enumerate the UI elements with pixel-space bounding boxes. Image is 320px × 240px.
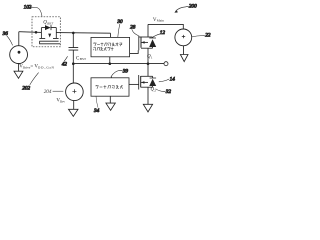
Q1 body diode	[149, 37, 156, 48]
wire: rail right segment to box 30	[56, 32, 110, 35]
Q2 top stub	[141, 75, 153, 77]
label 102	[24, 5, 42, 17]
svg-text:2: 2	[154, 89, 156, 93]
svg-text:14: 14	[170, 75, 176, 82]
label 22	[192, 33, 211, 39]
voltage source 204 circle	[66, 83, 84, 101]
wire: rail corner into gate-driver box 30	[110, 33, 112, 37]
transistor QBST: left plate	[39, 28, 45, 39]
QBST label	[43, 20, 54, 25]
Q1 channel bar	[140, 37, 142, 48]
label 34	[94, 96, 100, 114]
switch node rail	[73, 63, 164, 65]
source 36 center dot	[18, 51, 21, 54]
label 202	[22, 73, 38, 92]
svg-text:28: 28	[130, 25, 136, 31]
VMain rail	[148, 24, 183, 29]
label 42	[62, 56, 68, 67]
Q1 substrate tap with arrow	[141, 41, 148, 43]
label 12	[152, 30, 165, 38]
diode of QBST: branch	[41, 27, 56, 29]
plus sign of 22	[182, 35, 185, 38]
label 14	[159, 75, 175, 82]
label 32	[156, 89, 172, 95]
svg-text:30: 30	[117, 19, 123, 25]
Q2 designator	[151, 88, 157, 93]
label 39	[111, 69, 128, 77]
svg-text:=: =	[30, 65, 33, 70]
svg-text:Drv: Drv	[60, 99, 66, 103]
dashed box around QBST	[32, 17, 60, 47]
box 30 text line2: level shifter	[93, 47, 113, 51]
VMain label	[153, 18, 164, 23]
svg-text:12: 12	[160, 30, 166, 36]
svg-text:Main: Main	[157, 19, 164, 23]
Q1 source lead	[147, 48, 149, 63]
Q1 gate bar	[138, 36, 140, 51]
svg-text:DD_GaN: DD_GaN	[38, 66, 55, 70]
transistor QBST: right plate	[53, 28, 59, 39]
QBST gate bar	[39, 40, 58, 42]
gate driver box 34	[91, 78, 129, 96]
junction dot under box 30	[109, 62, 112, 65]
diode of QBST: triangle	[45, 25, 51, 30]
svg-text:42: 42	[62, 61, 68, 68]
output terminal	[164, 62, 168, 66]
svg-text:32: 32	[166, 89, 172, 95]
label 30	[117, 19, 123, 37]
Q2 source stub	[141, 86, 153, 88]
Q1 source stub	[141, 47, 153, 49]
svg-text:34: 34	[94, 107, 100, 114]
wire: box 34 top stub	[110, 76, 112, 78]
capacitor CBST plates	[69, 48, 79, 51]
CBST label	[76, 56, 87, 61]
svg-text:39: 39	[123, 69, 129, 75]
VDrv label	[56, 99, 65, 104]
wire: box 30 to Q1 gate	[130, 50, 139, 53]
gate driver + level shifter box 30	[91, 37, 130, 56]
wire: box 30 bottom pin to switch rail	[109, 57, 111, 64]
Q2 source lead	[147, 87, 149, 104]
Q2 body diode	[150, 76, 157, 87]
junction dot cap/source	[72, 62, 75, 65]
ground under box 34	[106, 96, 115, 110]
source 36 circle	[10, 46, 28, 64]
svg-text:204: 204	[44, 88, 52, 95]
wire: box 34 to Q2 gate	[129, 83, 139, 85]
junction dot at Q1 source	[147, 62, 150, 65]
figure number 200 with arrow	[174, 4, 197, 13]
node label VDrive = VDD_GaN	[19, 65, 54, 70]
ground under 204	[69, 101, 79, 117]
Q2 gate bar	[138, 75, 140, 90]
QBST gate lead	[40, 41, 61, 44]
wire: bootstrap rail left segment	[19, 31, 42, 34]
ground under 22	[180, 46, 188, 62]
voltage source 22 circle	[175, 29, 192, 46]
junction dot at cap	[72, 32, 75, 35]
ground under source 36	[14, 64, 23, 79]
Q1 top stub	[139, 36, 153, 38]
wire: source 36 to rail	[18, 32, 20, 46]
ground under Q2	[143, 104, 152, 112]
transistor Q2: drain lead	[147, 64, 149, 77]
label 36	[3, 31, 13, 45]
label 28	[130, 25, 138, 36]
svg-text:202: 202	[22, 86, 30, 92]
node dot on rail	[35, 31, 38, 34]
svg-text:200: 200	[189, 4, 197, 10]
svg-text:1: 1	[151, 56, 153, 60]
plus sign of 204	[72, 89, 76, 93]
Q1 designator	[147, 55, 153, 60]
capacitor CBST bottom lead down to source 204	[72, 50, 74, 83]
label 204	[44, 88, 52, 95]
svg-text:BST: BST	[80, 57, 87, 61]
capacitor CBST: top lead	[72, 33, 74, 48]
transistor Q1: drain lead	[147, 24, 149, 37]
svg-text:22: 22	[205, 33, 211, 39]
Q2 channel bar	[140, 76, 142, 87]
diode of QBST: cathode bar	[50, 25, 52, 30]
Q2 substrate tap with arrow	[141, 81, 148, 83]
QBST substrate arrow	[48, 34, 51, 38]
svg-text:102: 102	[24, 5, 32, 11]
box 30 text line1: gate driver	[93, 43, 122, 47]
box 34 text: gate driver	[96, 85, 123, 89]
